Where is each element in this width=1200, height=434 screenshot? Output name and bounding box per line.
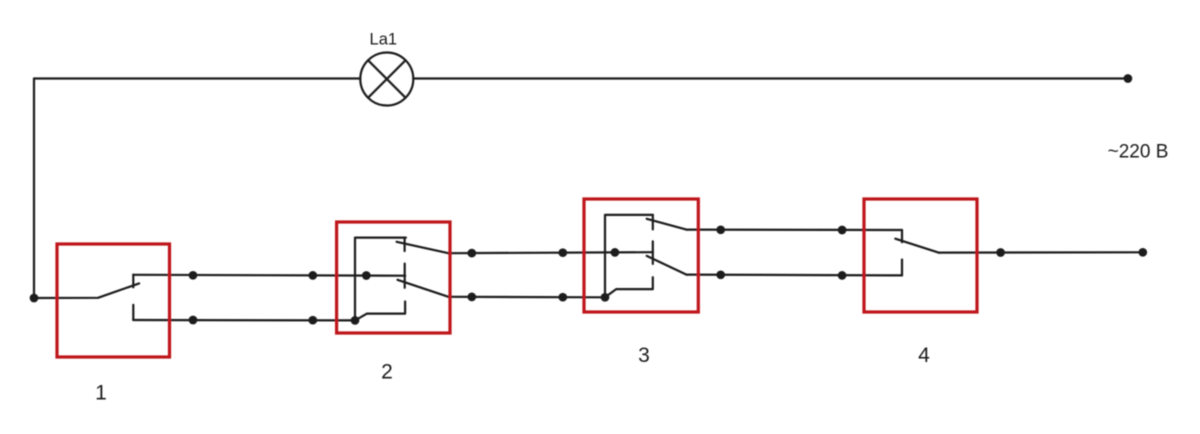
switch 1 upper contact tick [132, 275, 134, 288]
node sw3-sw4 lower 2 [838, 271, 847, 280]
lamp La1 circle [360, 53, 413, 106]
node switch3 lower terminal [601, 293, 610, 302]
switch 3 riser and top feed [605, 215, 653, 297]
switch 2 riser and top feed [355, 238, 406, 321]
switch 4 lower contact tick [901, 260, 903, 276]
node switch3 middle terminal [611, 248, 620, 257]
svg-text:3: 3 [638, 344, 650, 367]
lamp La1 cross [368, 60, 405, 97]
switch 2 lever A [397, 242, 449, 253]
switch box 3 [584, 199, 698, 312]
wire switch3 upper output to switch4 upper throw [686, 229, 902, 232]
svg-text:4: 4 [918, 344, 930, 367]
node sw2-sw3 lower 2 [558, 293, 567, 302]
svg-text:~220 В: ~220 В [1108, 142, 1169, 163]
node output end [1138, 248, 1147, 257]
node switch4 output [996, 248, 1005, 257]
wire switch4 output to right [939, 251, 1143, 254]
switch box 1 [57, 244, 170, 357]
wire switch3 lower output to switch4 lower throw [686, 274, 902, 277]
switch 3 middle contact tick [652, 241, 654, 264]
switch 1 lower contact tick [132, 305, 134, 320]
node upper wire 2 [308, 271, 317, 280]
switch 2 top contact tick [404, 238, 406, 251]
node top right end [1124, 74, 1133, 83]
switch 2 bottom throw path [355, 302, 405, 321]
node sw2-sw3 upper 1 [467, 249, 476, 258]
wire switch1 upper output to switch2 middle feed [133, 274, 405, 277]
node sw3-sw4 upper 1 [716, 225, 725, 234]
node upper wire 1 [189, 271, 198, 280]
switch 4 lever [895, 239, 938, 253]
node sw2-sw3 upper 2 [558, 248, 567, 257]
svg-text:2: 2 [381, 361, 393, 384]
wire lamp to top right [413, 77, 1128, 79]
switch 3 bottom throw path [605, 277, 653, 297]
wire left vertical feed [33, 79, 35, 299]
switch 3 lever B [647, 256, 687, 275]
node sw3-sw4 upper 2 [838, 226, 847, 235]
wire switch2 upper output to switch3 middle feed [448, 252, 652, 253]
wire switch1 lower output to switch2 lower terminal [133, 319, 355, 322]
node sw3-sw4 lower 1 [716, 270, 725, 279]
svg-text:1: 1 [95, 382, 107, 405]
switch 2 lever B [398, 280, 449, 297]
switch 3 lever A [647, 219, 687, 230]
wire top horizontal to lamp [34, 77, 360, 79]
node switch2 lower terminal [351, 316, 360, 325]
node lower wire 2 [308, 316, 317, 325]
switch 2 middle contact tick [404, 264, 406, 288]
node switch2 middle terminal [362, 271, 371, 280]
switch box 2 [337, 222, 450, 333]
node input left [30, 294, 39, 303]
node sw2-sw3 lower 1 [467, 293, 476, 302]
svg-text:La1: La1 [370, 30, 398, 48]
switch 3 top contact tick [652, 215, 654, 230]
wire switch2 lower output to switch3 lower terminal [448, 296, 605, 299]
switch 4 upper contact tick [901, 230, 903, 242]
switch box 4 [864, 199, 977, 312]
node lower wire 1 [189, 316, 198, 325]
switch 1 lever [34, 283, 139, 298]
